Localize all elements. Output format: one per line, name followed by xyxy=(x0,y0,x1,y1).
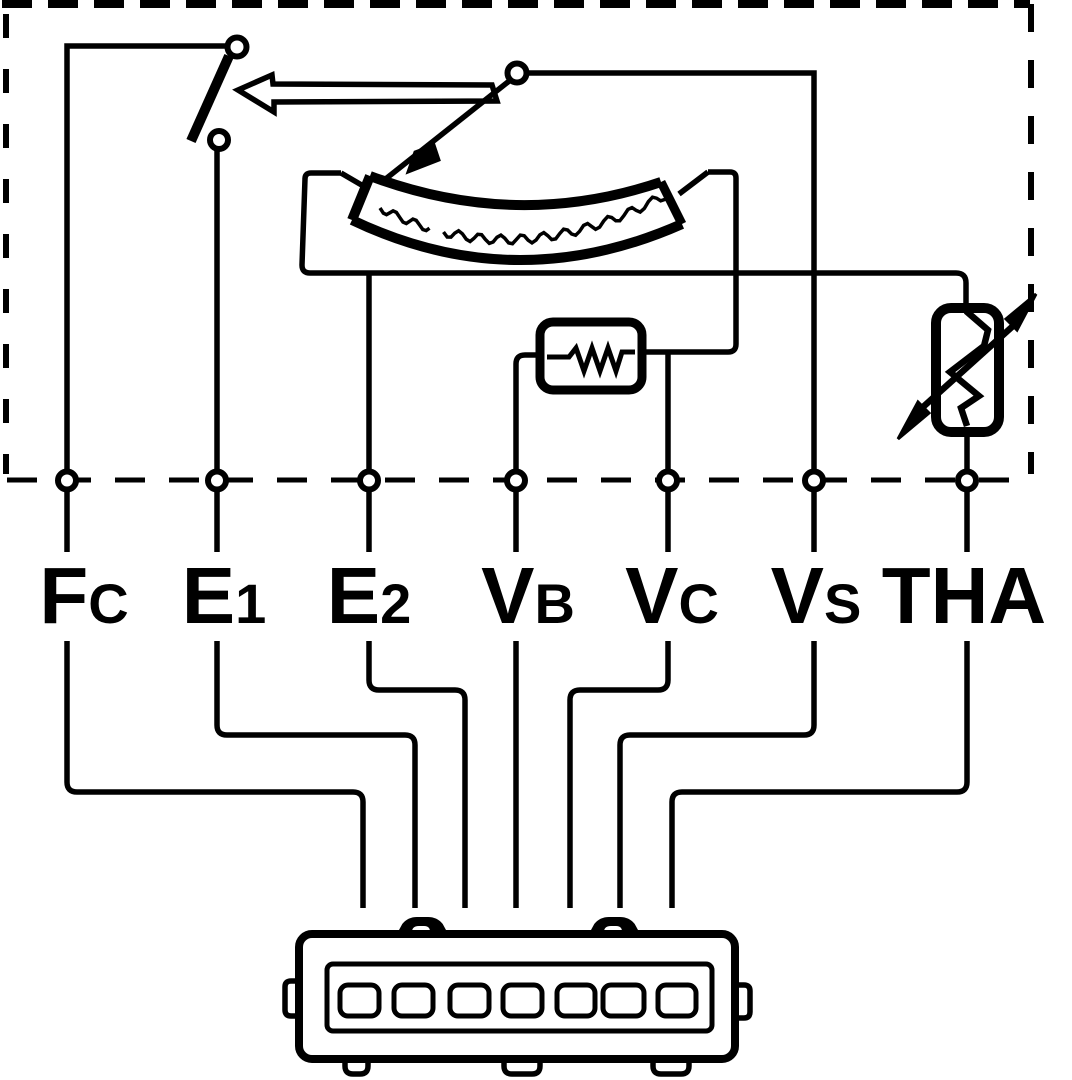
terminal Vs xyxy=(805,472,823,490)
housing diagonal right xyxy=(679,172,708,194)
connector pin 1 xyxy=(340,985,379,1016)
thermistor arrow shaft xyxy=(923,326,1013,407)
terminal THA xyxy=(958,472,976,490)
terminal Vc xyxy=(659,472,677,490)
thermistor THA arrow (upper-right head) xyxy=(1006,294,1036,330)
wire E1 to connector xyxy=(217,641,415,908)
wire stub E2 above label xyxy=(366,491,372,552)
wire stub Vs above label xyxy=(811,491,817,552)
connector ECU body xyxy=(299,934,735,1059)
wire stub THA above label xyxy=(964,491,970,552)
connector bottom tab 2 xyxy=(504,1058,540,1074)
wire Vs to connector xyxy=(620,641,814,908)
wire THA to connector xyxy=(672,641,967,908)
svg-text:VS: VS xyxy=(771,551,862,640)
track left end cap xyxy=(352,176,370,220)
connector pin 3 xyxy=(450,985,489,1016)
potentiometer track top arc xyxy=(370,176,661,205)
svg-text:FC: FC xyxy=(39,551,128,640)
svg-text:E1: E1 xyxy=(182,551,267,640)
terminal VB xyxy=(507,472,525,490)
svg-text:VB: VB xyxy=(481,551,575,640)
terminal E2 xyxy=(360,472,378,490)
connector top tab left xyxy=(398,919,447,936)
wiper arm from pivot to track xyxy=(383,78,513,181)
dashed enclosure top edge xyxy=(2,0,1030,8)
wiper arrowhead (filled) xyxy=(408,145,439,172)
dashed enclosure left edge xyxy=(3,14,9,474)
resistor R (damping resistor) box xyxy=(540,322,642,390)
wire E1: from switch contact down xyxy=(214,149,220,471)
track resistive wavy element left part xyxy=(380,208,430,231)
housing outline right xyxy=(642,172,736,352)
terminal Fc xyxy=(58,472,76,490)
housing outline left xyxy=(302,173,341,273)
wire THA: thermistor bottom down xyxy=(964,432,970,471)
wire Fc to connector xyxy=(67,641,363,908)
connector pin 7 xyxy=(658,985,696,1016)
thermistor box xyxy=(936,308,999,432)
connector top tab right xyxy=(590,919,639,936)
wire stub Fc above label xyxy=(64,491,70,552)
wire Fc net: from switch to left and down xyxy=(67,46,228,471)
thermistor zigzag xyxy=(950,311,988,426)
housing diagonal left xyxy=(341,173,365,187)
connector bottom tab 1 xyxy=(345,1058,368,1074)
resistor R zigzag xyxy=(547,348,635,371)
potentiometer track bottom arc xyxy=(352,220,682,260)
thermistor THA arrow (lower-left head) xyxy=(898,402,929,439)
connector inner frame xyxy=(327,964,712,1031)
connector pin 2 xyxy=(394,985,433,1016)
connector bottom tab 3 xyxy=(653,1058,689,1074)
housing bottom edge / wire to thermistor xyxy=(310,273,966,308)
dashed enclosure right edge xyxy=(1028,4,1034,474)
switch top pivot circle xyxy=(228,38,247,57)
connector pin 4 xyxy=(503,985,542,1016)
track resistive wavy element right part xyxy=(444,193,670,244)
svg-text:E2: E2 xyxy=(327,551,412,640)
wire stub E1 above label xyxy=(214,491,220,552)
wire stub Vc above label xyxy=(665,491,671,552)
wire VB to connector xyxy=(513,641,519,908)
svg-text:VC: VC xyxy=(625,551,719,640)
wiper pivot circle xyxy=(508,64,527,83)
wire stub VB above label xyxy=(513,491,519,552)
connector right ear xyxy=(734,985,750,1018)
wire E2 to connector xyxy=(369,641,465,908)
connector left ear xyxy=(285,981,300,1016)
connector pin 5 xyxy=(557,985,595,1016)
svg-text:THA: THA xyxy=(882,551,1046,640)
wire Vs: pivot to right and down xyxy=(526,73,814,471)
wire E2: from housing bottom down xyxy=(366,273,372,471)
connector pin 6 xyxy=(603,985,644,1016)
terminal E1 xyxy=(208,472,226,490)
switch blade (thick slanted arm) xyxy=(191,56,229,141)
switch bottom contact circle xyxy=(210,131,228,149)
track right end cap xyxy=(661,182,682,224)
wire VB: resistor left lead down xyxy=(516,355,540,471)
wire Vc: resistor right lead and drop xyxy=(665,352,671,471)
wire Vc to connector xyxy=(570,641,668,908)
hollow arrow pointing left xyxy=(238,75,497,112)
dashed enclosure bottom edge xyxy=(7,478,1030,483)
